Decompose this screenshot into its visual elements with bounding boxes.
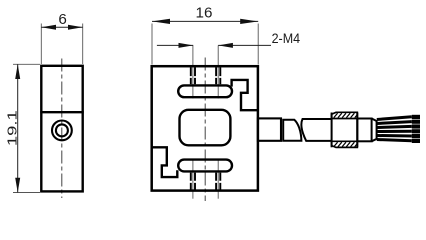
wire 2 (377, 122, 412, 124)
svg-text:16: 16 (196, 4, 213, 21)
left view centerline (61, 59, 63, 199)
wire 4 (377, 130, 412, 133)
svg-text:19.1: 19.1 (6, 110, 20, 146)
top hole 2 walls (216, 67, 220, 84)
cable sleeve piece (283, 120, 301, 141)
dimension 2-M4 left arrow (179, 43, 194, 48)
main view vertical centerline (204, 58, 206, 202)
dimension 2-M4 line left segment (157, 44, 193, 46)
dimension 19.1 top arrow (15, 64, 20, 79)
dimension 16 line (152, 20, 258, 22)
wire 1 (377, 117, 412, 120)
connector tail taper (372, 119, 377, 142)
dimension 19.1 bottom arrow (15, 178, 20, 193)
hole centerline left (192, 45, 194, 98)
dimension 6 extension lines (40, 24, 42, 65)
connector ferrule top hatched band (332, 112, 358, 118)
connector ferrule left edge (331, 113, 333, 148)
bottom hole 2 walls (216, 173, 220, 190)
wire 5 (377, 134, 412, 138)
bottom hole 1 walls (191, 173, 195, 190)
top slot (178, 85, 232, 97)
connector ferrule bottom hatched band (332, 141, 358, 147)
top-right cutout channel (232, 80, 258, 110)
dimension 6 right arrow (68, 25, 83, 30)
cable gland rectangle (258, 118, 281, 140)
connector ferrule right edge (356, 113, 358, 148)
svg-text:6: 6 (58, 11, 66, 28)
wire 6 (377, 140, 412, 141)
central square hole (180, 110, 231, 146)
left view hole outer circle (52, 120, 72, 140)
dimension 16 right arrow (240, 19, 258, 24)
dimension 16 left arrow (152, 19, 170, 24)
dimension 6 left arrow (41, 25, 56, 30)
dimension 16 extension lines (151, 24, 153, 65)
connector mid body (357, 119, 371, 142)
dimension 19.1 line (17, 64, 19, 192)
bottom-left cutout channel (152, 147, 178, 177)
wire 3 (377, 126, 412, 127)
bottom slot (178, 160, 232, 172)
left view body outline (41, 66, 82, 192)
dimension 6 line (41, 26, 82, 28)
left view divider line (40, 111, 83, 113)
dimension 19.1 extension lines (13, 63, 40, 65)
cable boot piece (301, 119, 331, 141)
dimension 2-M4 right arrow (218, 43, 233, 48)
left view hole inner circle (56, 124, 68, 136)
dimension 2-M4 line right segment (218, 44, 271, 46)
hole centerline right (217, 45, 219, 98)
svg-text:2-M4: 2-M4 (272, 30, 301, 46)
top hole 1 walls (191, 67, 195, 84)
main body outline (152, 66, 258, 190)
